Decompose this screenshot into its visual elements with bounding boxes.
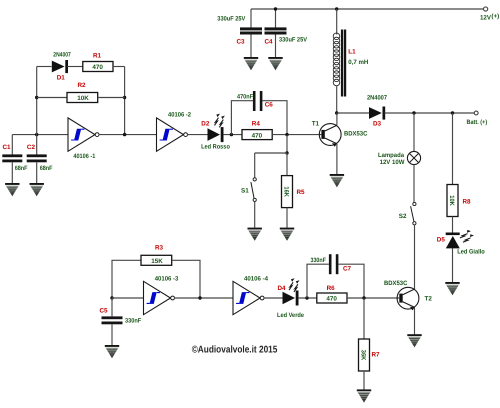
svg-text:470nF: 470nF xyxy=(237,93,253,100)
wire D5 to ground xyxy=(452,248,454,282)
wire R3 right vertical xyxy=(172,260,200,298)
wire R3 left vertical xyxy=(112,260,141,298)
svg-text:(+): (+) xyxy=(491,13,499,20)
svg-text:470: 470 xyxy=(326,296,337,303)
lamp Lampada 12V 10W xyxy=(407,151,420,164)
terminal 12V(+) xyxy=(484,7,488,11)
resistor R1 470 xyxy=(83,62,113,72)
wire lamp to S2 xyxy=(413,165,415,203)
switch S1 xyxy=(253,178,256,181)
diode D1 2N4007 xyxy=(52,61,65,73)
resistor R7 36K xyxy=(359,339,370,371)
svg-text:R8: R8 xyxy=(463,199,472,206)
node junction rail/C4 xyxy=(274,7,277,10)
wire C7 left leg xyxy=(307,264,329,298)
wire L1 top leg xyxy=(336,9,338,35)
svg-text:D1: D1 xyxy=(57,74,66,81)
wire C1/C2 row to inverter 1 input xyxy=(12,134,68,136)
ground below C3 xyxy=(244,57,258,70)
wire R7 top leg xyxy=(363,298,365,339)
wire C1 to ground xyxy=(11,162,13,183)
wire R1 to right vertical xyxy=(113,66,125,68)
led D2 Led Rosso xyxy=(208,128,221,141)
wire R5 top leg xyxy=(286,153,288,176)
svg-text:R3: R3 xyxy=(155,244,164,251)
resistor R3 15K xyxy=(141,255,172,265)
node junction input row xyxy=(35,133,38,136)
capacitor C4 xyxy=(265,27,287,30)
svg-text:©Audiovalvole.it 2015: ©Audiovalvole.it 2015 xyxy=(192,344,278,355)
resistor R4 470 xyxy=(242,130,272,140)
svg-text:C3: C3 xyxy=(237,39,246,46)
ground below C4 xyxy=(268,57,282,70)
svg-text:D4: D4 xyxy=(278,285,287,292)
wire D2 to R4 xyxy=(223,134,242,136)
wire inverter2 out xyxy=(187,134,207,136)
svg-text:330uF 25V: 330uF 25V xyxy=(279,37,308,44)
svg-text:C6: C6 xyxy=(265,102,274,109)
wire C5 to ground xyxy=(111,324,113,345)
wire lamp top leg xyxy=(413,113,415,152)
wire C6 left leg xyxy=(231,101,253,135)
svg-text:R5: R5 xyxy=(297,189,306,196)
svg-text:R6: R6 xyxy=(327,285,336,292)
ground below T1 emitter xyxy=(330,174,344,187)
svg-text:40106 -2: 40106 -2 xyxy=(168,112,191,119)
wire R4 to T1 base xyxy=(272,134,321,136)
op-amp inverter 40106-2 xyxy=(157,118,188,151)
svg-text:C4: C4 xyxy=(265,39,274,46)
diode D3 2N4007 xyxy=(369,107,382,119)
capacitor C7 330nF xyxy=(329,254,332,274)
node junction inverter1 out xyxy=(123,133,126,136)
switch S2 xyxy=(413,202,416,205)
wire S2 to T2 collector xyxy=(414,225,416,289)
svg-text:330nF: 330nF xyxy=(311,257,327,264)
capacitor C1 xyxy=(2,154,22,157)
node junction L1/T1 collector/D3 xyxy=(335,111,338,114)
svg-text:T2: T2 xyxy=(425,296,433,303)
inductor L1 core bars xyxy=(341,30,343,97)
node junction rail/L1 xyxy=(335,7,338,10)
svg-text:12V 10W: 12V 10W xyxy=(380,159,405,166)
node junction D4/C7 xyxy=(305,296,308,299)
svg-text:S1: S1 xyxy=(241,188,249,195)
wire to D1 xyxy=(37,66,52,68)
svg-text:BDX53C: BDX53C xyxy=(384,280,408,287)
wire C4 top leg xyxy=(275,9,277,28)
svg-text:15K: 15K xyxy=(151,258,163,265)
svg-text:C7: C7 xyxy=(343,265,352,272)
svg-text:S2: S2 xyxy=(399,213,407,220)
node junction inverter3 input xyxy=(110,296,113,299)
svg-text:2N4007: 2N4007 xyxy=(53,52,71,59)
wire R6 to T2 base xyxy=(347,297,399,299)
svg-text:0,7 mH: 0,7 mH xyxy=(348,59,368,66)
resistor R5 16K xyxy=(282,176,293,208)
resistor R6 470 xyxy=(317,293,347,303)
transistor T1 BDX53C xyxy=(319,124,341,146)
capacitor C5 330nF xyxy=(102,316,123,319)
op-amp inverter 40106-3 xyxy=(144,281,175,314)
wire right feedback vertical xyxy=(124,67,126,135)
wire D3 to Batt terminal xyxy=(385,112,475,114)
svg-text:Batt. (+): Batt. (+) xyxy=(467,119,488,126)
svg-text:Led Verde: Led Verde xyxy=(277,312,304,319)
wire C5 top leg xyxy=(111,298,113,316)
ground below T2 emitter xyxy=(407,334,421,347)
wire C3 top leg xyxy=(250,9,252,28)
svg-text:C1: C1 xyxy=(3,144,12,151)
svg-text:R4: R4 xyxy=(252,120,261,127)
wire R2 left leg xyxy=(37,97,67,99)
resistor R8 10K xyxy=(447,185,458,217)
svg-text:L1: L1 xyxy=(348,49,356,56)
svg-text:BDX53C: BDX53C xyxy=(344,131,368,138)
wire inverter3 out xyxy=(174,297,233,299)
wire down to S1/R5 branch xyxy=(286,135,288,153)
wire inverter4 out xyxy=(264,297,283,299)
wire C2 to ground xyxy=(36,162,38,183)
svg-text:330uF 25V: 330uF 25V xyxy=(217,16,246,23)
svg-text:D2: D2 xyxy=(201,120,210,127)
ground below S1 xyxy=(248,228,262,241)
ground below R7 xyxy=(357,389,371,402)
svg-text:R7: R7 xyxy=(372,352,381,359)
svg-text:40106 -1: 40106 -1 xyxy=(73,153,95,160)
svg-text:40106 -3: 40106 -3 xyxy=(155,276,179,283)
wire to inverter3 input xyxy=(112,297,144,299)
wire inverter1 out xyxy=(99,134,157,136)
capacitor C6 470nF xyxy=(253,91,256,111)
svg-text:40106 -4: 40106 -4 xyxy=(244,276,268,283)
svg-text:16K: 16K xyxy=(283,186,290,197)
svg-text:330nF: 330nF xyxy=(125,318,141,325)
inductor L1 coil xyxy=(333,33,340,86)
ground below C2 xyxy=(30,183,44,196)
wire R8 top leg xyxy=(452,113,454,185)
svg-text:Led Rosso: Led Rosso xyxy=(201,143,230,150)
wire L1 bottom leg xyxy=(336,86,338,114)
svg-text:10K: 10K xyxy=(448,195,455,206)
wire D4 to R6 xyxy=(298,297,317,299)
node junction R4/C6/R5 xyxy=(285,133,288,136)
wire C4 bottom leg xyxy=(275,35,277,58)
node junction S1/R5 xyxy=(285,151,288,154)
svg-text:12V: 12V xyxy=(480,15,492,22)
node junction R2 left xyxy=(35,96,38,99)
wire T2 emitter xyxy=(414,307,416,334)
node junction R8 branch xyxy=(451,111,454,114)
node junction lamp branch xyxy=(412,111,415,114)
node junction R2 right xyxy=(123,96,126,99)
ground below D5 xyxy=(445,282,459,295)
node junction R6/C7/R7 xyxy=(362,296,365,299)
wire D1 to R1 xyxy=(67,66,83,68)
terminal Batt.(+) xyxy=(474,111,478,115)
wire C6 right leg xyxy=(262,101,287,135)
wire branch to S1 xyxy=(255,152,287,154)
ground below C5 xyxy=(105,345,119,358)
svg-text:68nF: 68nF xyxy=(15,165,28,172)
wire R7 to ground xyxy=(363,371,365,390)
svg-text:470: 470 xyxy=(252,132,263,139)
svg-text:10K: 10K xyxy=(77,95,89,102)
svg-text:C5: C5 xyxy=(100,307,109,314)
wire C1 top leg xyxy=(11,135,13,155)
wire T1 emitter xyxy=(336,144,338,175)
svg-text:R1: R1 xyxy=(93,53,102,60)
wire C3 bottom leg xyxy=(250,35,252,58)
capacitor C3 xyxy=(240,27,262,30)
svg-text:D3: D3 xyxy=(373,120,382,127)
transistor T2 BDX53C xyxy=(397,287,419,309)
svg-text:D5: D5 xyxy=(437,237,446,244)
wire T1 collector xyxy=(336,113,338,125)
led D4 Led Verde xyxy=(283,292,296,305)
node junction D2/C6 xyxy=(230,133,233,136)
wire C2 top leg xyxy=(36,135,38,155)
svg-text:T1: T1 xyxy=(312,120,320,127)
wire R5 to ground xyxy=(286,208,288,228)
svg-text:2N4007: 2N4007 xyxy=(367,95,387,102)
capacitor C2 xyxy=(27,154,47,157)
wire to D3 xyxy=(337,112,369,114)
svg-text:C2: C2 xyxy=(27,144,36,151)
ground below C1 xyxy=(5,183,19,196)
resistor R2 10K xyxy=(67,93,98,103)
svg-text:68nF: 68nF xyxy=(40,165,53,172)
svg-text:R2: R2 xyxy=(78,82,87,89)
wire left feedback vertical xyxy=(36,67,38,135)
op-amp inverter 40106-1 xyxy=(68,118,99,151)
wire S1 to ground xyxy=(254,202,256,228)
node junction inverter3 out xyxy=(198,296,201,299)
svg-text:Led Giallo: Led Giallo xyxy=(457,248,485,255)
wire C7 right leg xyxy=(338,264,364,298)
wire R8 to D5 xyxy=(452,217,454,233)
wire S1 top leg xyxy=(254,153,256,178)
svg-text:36K: 36K xyxy=(360,350,367,361)
wire top supply rail xyxy=(251,8,483,10)
wire R2 right leg xyxy=(98,97,125,99)
svg-text:470: 470 xyxy=(92,64,103,71)
led D5 Led Giallo xyxy=(446,233,460,236)
op-amp inverter 40106-4 xyxy=(233,281,264,314)
ground below R5 xyxy=(280,228,294,241)
